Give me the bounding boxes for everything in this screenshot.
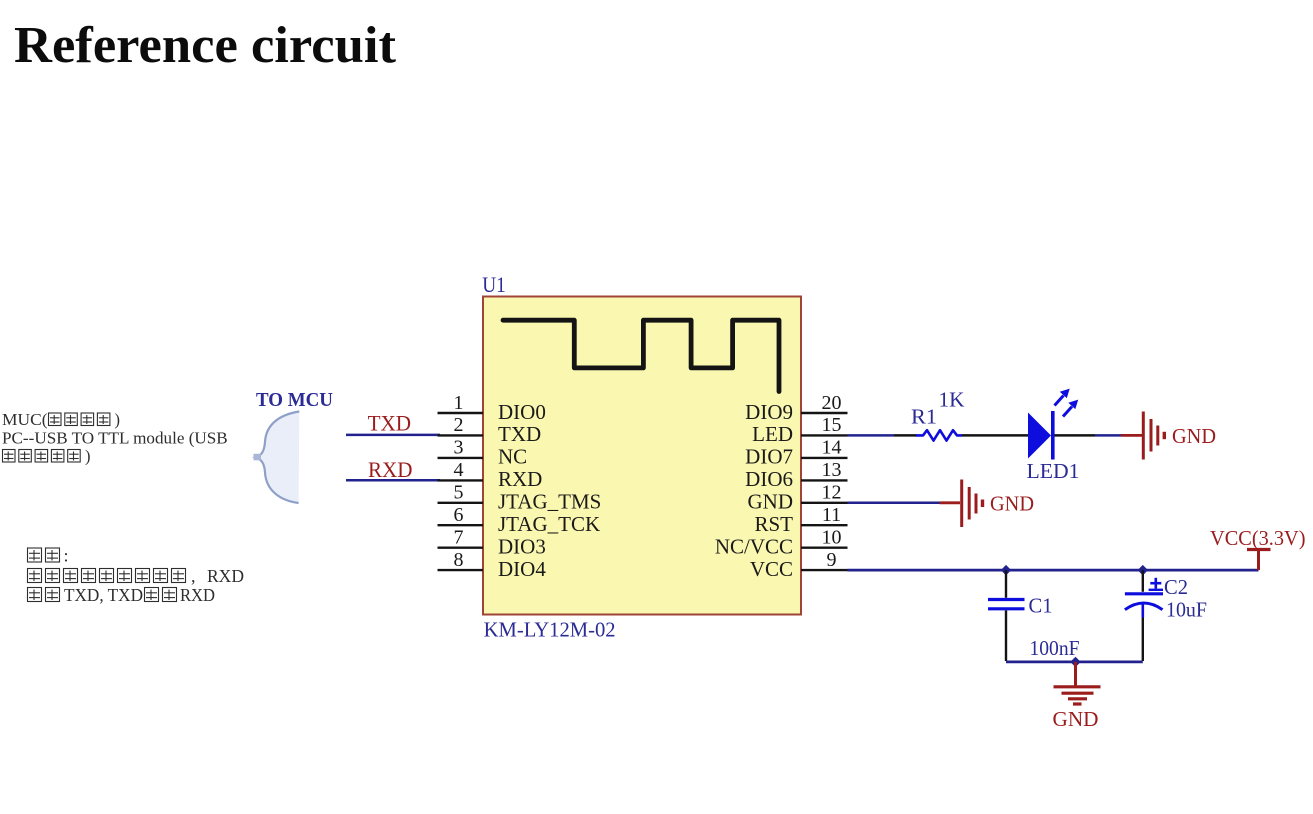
svg-text:10uF: 10uF — [1166, 598, 1207, 622]
svg-text:VCC: VCC — [750, 557, 793, 581]
svg-text:TXD: TXD — [368, 411, 412, 436]
label C1 — [1029, 594, 1053, 618]
svg-text:10: 10 — [822, 527, 842, 549]
pin 8 DIO4 — [438, 549, 547, 581]
svg-text:TXD, TXD: TXD, TXD — [64, 585, 143, 605]
svg-text:DIO0: DIO0 — [498, 400, 546, 424]
svg-text:1K: 1K — [939, 388, 965, 412]
pin 4 RXD — [438, 459, 543, 491]
svg-text:LED: LED — [752, 422, 793, 446]
label LED1 — [1027, 459, 1080, 483]
svg-text:DIO4: DIO4 — [498, 557, 546, 581]
svg-text::: : — [64, 546, 69, 566]
wire VCC net pin9 — [848, 569, 1259, 572]
wire RXD — [346, 479, 440, 482]
svg-text:DIO9: DIO9 — [745, 400, 793, 424]
svg-text:JTAG_TCK: JTAG_TCK — [498, 512, 600, 536]
label R1 — [911, 405, 937, 429]
ground GND (pin 12) — [962, 480, 983, 528]
title — [14, 17, 397, 74]
svg-text:,: , — [191, 566, 196, 586]
pin 12 GND — [748, 482, 848, 514]
svg-text:JTAG_TMS: JTAG_TMS — [498, 490, 601, 514]
svg-text:GND: GND — [748, 490, 794, 514]
note text block — [28, 546, 245, 606]
svg-text:8: 8 — [454, 549, 464, 571]
svg-text:TO MCU: TO MCU — [256, 389, 333, 411]
svg-text:12: 12 — [822, 482, 842, 504]
svg-text:15: 15 — [822, 414, 842, 436]
svg-text:6: 6 — [454, 504, 464, 526]
label TO MCU — [256, 389, 333, 411]
svg-text:RXD: RXD — [498, 467, 542, 491]
svg-text:U1: U1 — [482, 272, 506, 297]
svg-text:R1: R1 — [911, 405, 937, 429]
svg-text:TXD: TXD — [498, 422, 541, 446]
label 100nF — [1030, 636, 1080, 660]
pin 7 DIO3 — [438, 527, 546, 559]
svg-text:GND: GND — [990, 492, 1034, 516]
svg-text:1: 1 — [454, 392, 464, 414]
wire ground bus — [1006, 661, 1143, 664]
pin 15 LED — [752, 414, 847, 446]
pin 10 NC/VCC — [715, 527, 848, 559]
svg-text:3: 3 — [454, 437, 464, 459]
chip logo waveform — [503, 320, 779, 391]
ground GND (bottom) — [1054, 662, 1101, 704]
pin 3 NC — [438, 437, 528, 469]
label TXD — [368, 411, 412, 436]
svg-text:Reference circuit: Reference circuit — [14, 17, 397, 74]
svg-text:): ) — [85, 447, 91, 466]
svg-text:5: 5 — [454, 482, 464, 504]
svg-text:GND: GND — [1053, 707, 1099, 731]
svg-text:20: 20 — [822, 392, 842, 414]
pin 11 RST — [754, 504, 847, 536]
resistor R1 — [916, 430, 962, 440]
label GND (LED) — [1172, 424, 1216, 448]
svg-text:DIO3: DIO3 — [498, 535, 546, 559]
pin 2 TXD — [438, 414, 542, 446]
junction node C2 — [1138, 565, 1148, 576]
svg-text:7: 7 — [454, 527, 464, 549]
svg-text:13: 13 — [822, 459, 842, 481]
LED LED1 — [1028, 389, 1078, 460]
svg-text:C2: C2 — [1164, 575, 1188, 599]
pin 6 JTAG_TCK — [438, 504, 601, 536]
svg-text:14: 14 — [822, 437, 842, 459]
svg-text:DIO7: DIO7 — [745, 445, 793, 469]
pin 5 JTAG_TMS — [438, 482, 602, 514]
svg-text:RXD: RXD — [207, 566, 244, 586]
annotation text MUC / PC-USB-TTL — [2, 410, 228, 466]
svg-text:KM-LY12M-02: KM-LY12M-02 — [484, 618, 616, 642]
pin 14 DIO7 — [745, 437, 847, 469]
svg-text:4: 4 — [454, 459, 464, 481]
label VCC(3.3V) — [1210, 526, 1306, 550]
pin 20 DIO9 — [745, 392, 847, 424]
svg-text:RXD: RXD — [368, 457, 413, 482]
junction node C1 — [1001, 565, 1011, 576]
svg-text:NC/VCC: NC/VCC — [715, 535, 793, 559]
svg-text:VCC(3.3V): VCC(3.3V) — [1210, 526, 1306, 550]
svg-text:NC: NC — [498, 445, 527, 469]
svg-text:9: 9 — [827, 549, 837, 571]
capacitor C1 — [988, 570, 1025, 661]
brace to MCU — [254, 412, 300, 504]
svg-text:DIO6: DIO6 — [745, 467, 793, 491]
refdes U1 — [482, 272, 506, 297]
junction node ground bus — [1070, 657, 1080, 667]
wire R1 to LED1 — [962, 434, 1028, 437]
svg-text:LED1: LED1 — [1027, 459, 1080, 483]
svg-text:RST: RST — [754, 512, 793, 536]
svg-text:2: 2 — [454, 414, 464, 436]
label 1K — [939, 388, 965, 412]
wire pin12 to GND — [848, 502, 961, 505]
pin 9 VCC — [750, 549, 848, 581]
label 10uF — [1166, 598, 1207, 622]
label GND (bottom) — [1053, 707, 1099, 731]
svg-text:): ) — [115, 410, 121, 429]
label RXD — [368, 457, 413, 482]
svg-text:PC--USB TO TTL module (USB: PC--USB TO TTL module (USB — [2, 428, 228, 447]
ground GND (LED) — [1143, 412, 1164, 460]
capacitor C2 — [1125, 570, 1163, 661]
svg-text:GND: GND — [1172, 424, 1216, 448]
wire LED1 to GND — [1055, 434, 1143, 437]
label C2 — [1164, 575, 1188, 599]
svg-text:100nF: 100nF — [1030, 636, 1080, 660]
power VCC(3.3V) symbol — [1247, 550, 1271, 571]
svg-text:MUC(: MUC( — [2, 410, 47, 429]
part number KM-LY12M-02 — [484, 618, 616, 642]
svg-text:C1: C1 — [1029, 594, 1053, 618]
pin 1 DIO0 — [438, 392, 546, 424]
svg-text:11: 11 — [822, 504, 841, 526]
wire pin15 to R1 — [848, 434, 918, 437]
wire TXD — [346, 434, 440, 437]
chip U1 body — [483, 297, 801, 615]
label GND (pin 12) — [990, 492, 1034, 516]
pin 13 DIO6 — [745, 459, 847, 491]
svg-text:RXD: RXD — [180, 585, 215, 605]
